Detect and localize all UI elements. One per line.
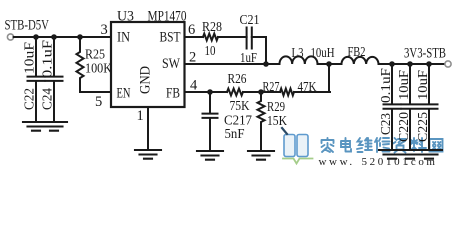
svg-text:www.: www. — [319, 156, 355, 168]
capacitor C22 — [28, 77, 45, 122]
wire BST pin 6 — [185, 36, 203, 38]
svg-text:10uF: 10uF — [22, 41, 37, 74]
svg-text:MP1470: MP1470 — [148, 9, 187, 25]
wire input rail to pin 3 — [14, 36, 111, 38]
svg-text:5nF: 5nF — [225, 127, 245, 142]
svg-text:R27: R27 — [263, 80, 280, 95]
svg-text:C21: C21 — [240, 13, 260, 28]
svg-text:2: 2 — [189, 50, 196, 66]
wire C217 top — [209, 92, 211, 113]
svg-text:6: 6 — [188, 22, 195, 38]
svg-text:15K: 15K — [267, 114, 287, 129]
svg-text:3V3-STB: 3V3-STB — [404, 46, 446, 62]
svg-text:1: 1 — [137, 108, 144, 124]
resistor R26 — [227, 89, 243, 96]
ground for C225 — [416, 150, 442, 159]
inductor L3 — [280, 56, 318, 64]
capacitor C24 — [46, 77, 63, 122]
svg-text:520: 520 — [362, 156, 386, 168]
svg-text:R25: R25 — [85, 48, 105, 63]
watermark Chinese text 家电维修资料网 — [322, 138, 443, 153]
svg-text:U3: U3 — [117, 9, 134, 25]
wire EN pin 5 — [80, 91, 111, 93]
capacitor C21 — [247, 28, 252, 49]
ground for C22 — [23, 122, 49, 131]
ground for C24 — [41, 122, 67, 131]
IC U3 MP1470 — [111, 22, 185, 107]
wire R27 to feedback node — [294, 91, 330, 93]
svg-text:3: 3 — [101, 22, 108, 38]
svg-text:SW: SW — [162, 56, 180, 72]
junction dots input rail — [33, 34, 83, 40]
svg-text:C24: C24 — [40, 88, 55, 110]
resistor R28 — [203, 34, 218, 41]
wire C22 branch vertical — [35, 37, 37, 76]
junction dot L3-FB2 node — [326, 61, 332, 67]
wire SW pin 2 — [185, 63, 280, 65]
svg-text:R26: R26 — [228, 72, 247, 87]
junction dot SW node — [263, 61, 269, 67]
svg-text:75K: 75K — [230, 99, 250, 114]
wire C21 to SW node — [252, 37, 266, 64]
wire feedback vertical — [328, 64, 330, 92]
svg-text:C22: C22 — [22, 88, 37, 110]
svg-text:C225: C225 — [415, 112, 430, 142]
junction dots output rail — [389, 61, 432, 67]
svg-text:GND: GND — [138, 66, 154, 94]
svg-text:C220: C220 — [396, 112, 411, 142]
svg-text:EN: EN — [117, 86, 131, 102]
ground for C220 — [397, 150, 423, 159]
wire GND pin 1 — [147, 107, 149, 150]
svg-text:C23: C23 — [378, 113, 393, 135]
svg-text:100K: 100K — [85, 62, 112, 77]
svg-text:1uF: 1uF — [240, 51, 257, 66]
inductor FB2 — [342, 57, 379, 64]
resistor R27 — [280, 89, 294, 96]
junction dot C217 node — [207, 89, 213, 95]
node STB-D5V input terminal — [7, 34, 13, 40]
svg-text:10uH: 10uH — [311, 46, 335, 61]
ground for R29 — [248, 151, 274, 160]
node 3V3-STB output terminal — [445, 61, 451, 67]
watermark logo book icon — [282, 128, 313, 164]
svg-text:10: 10 — [205, 44, 216, 59]
wire L3 to FB2 — [318, 63, 342, 65]
wire FB2 to 3V3-STB terminal — [379, 63, 445, 65]
junction dot R29 node — [258, 89, 264, 95]
wire FB pin 4 — [185, 91, 227, 93]
svg-text:STB-D5V: STB-D5V — [5, 18, 50, 34]
svg-text:FB2: FB2 — [348, 45, 366, 60]
ground for C217 — [197, 151, 223, 160]
wire R26 to R27 — [243, 91, 280, 93]
svg-text:47K: 47K — [298, 80, 317, 95]
wire C24 branch vertical — [53, 37, 55, 76]
capacitor C225 branch — [421, 64, 438, 150]
svg-text:IN: IN — [117, 30, 130, 46]
svg-text:4: 4 — [190, 78, 198, 94]
svg-text:0.1uF: 0.1uF — [378, 67, 393, 103]
svg-text:10uF: 10uF — [396, 69, 411, 100]
capacitor C220 branch — [402, 64, 419, 150]
capacitor C23 branch — [384, 64, 401, 150]
svg-text:FB: FB — [166, 86, 180, 102]
ground for C23 — [379, 150, 405, 159]
svg-text:L3: L3 — [292, 46, 304, 61]
svg-text:5: 5 — [95, 94, 102, 110]
svg-text:BST: BST — [160, 30, 181, 46]
ground for pin 1 — [135, 150, 161, 159]
svg-text:R28: R28 — [202, 20, 222, 35]
watermark url www.520101.com — [319, 156, 438, 168]
svg-text:R29: R29 — [267, 100, 285, 115]
resistor R29 vertical — [258, 92, 265, 151]
svg-text:0.1uF: 0.1uF — [40, 39, 55, 78]
svg-text:10uF: 10uF — [415, 69, 430, 100]
capacitor C217 — [203, 114, 218, 151]
resistor R25 vertical — [77, 37, 84, 92]
wire R28 to C21 — [218, 36, 247, 38]
